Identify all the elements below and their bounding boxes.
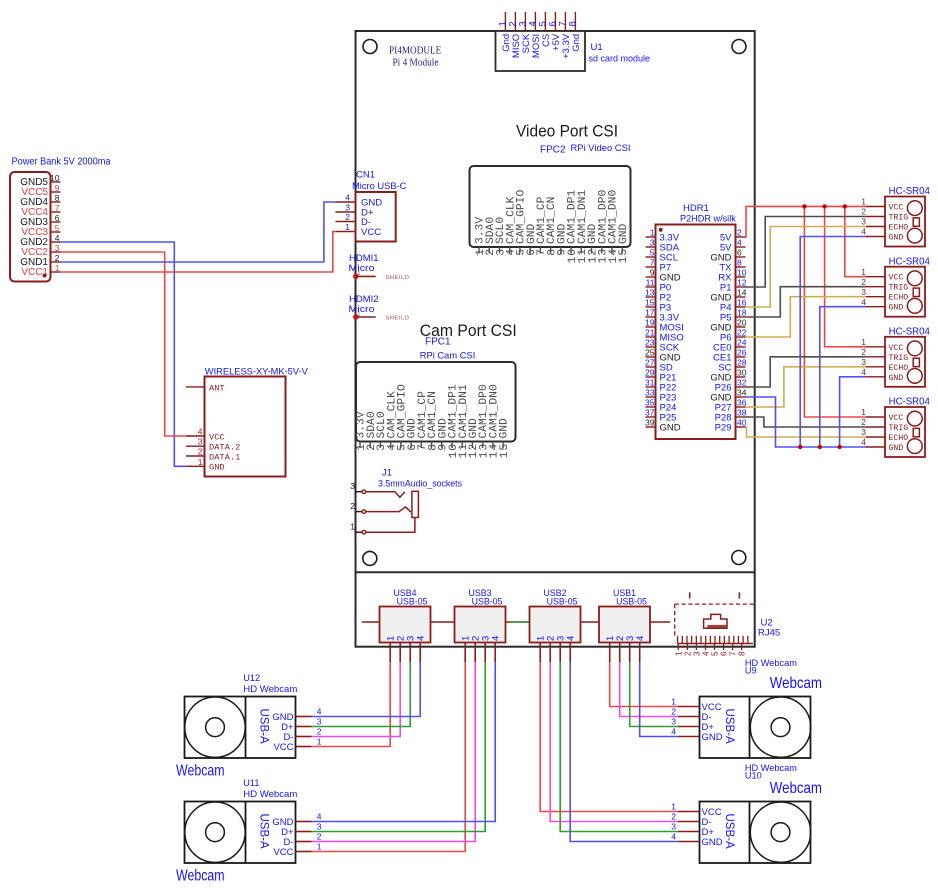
svg-text:36: 36: [737, 398, 747, 408]
svg-text:26: 26: [737, 348, 747, 358]
wire P1 HDR1 pin12 to HC-SR04 #1 TRIG: [746, 217, 867, 288]
svg-text:1: 1: [674, 651, 683, 656]
svg-text:10: 10: [737, 268, 747, 278]
svg-text:GND: GND: [889, 444, 904, 453]
svg-text:21: 21: [645, 328, 655, 338]
svg-text:Micro: Micro: [349, 304, 375, 315]
webcam U10 HD Webcam USB-A: [671, 763, 810, 863]
svg-text:3: 3: [345, 203, 350, 213]
connector FPC1 body: [356, 362, 516, 442]
wire USB1.3 D+ to U9: [630, 662, 678, 727]
svg-text:FPC2: FPC2: [540, 145, 566, 156]
svg-text:1: 1: [861, 407, 866, 417]
svg-text:ANT: ANT: [209, 383, 225, 393]
wire USB2.1 VCC to U10: [540, 662, 678, 812]
wire GND riser to HC-SR04 #1 GND: [800, 237, 866, 448]
svg-text:3: 3: [198, 437, 203, 447]
svg-text:USB-A: USB-A: [723, 814, 735, 849]
svg-text:GND: GND: [702, 837, 723, 848]
svg-text:2: 2: [683, 651, 692, 656]
junction 5V bus C: [843, 204, 847, 208]
svg-text:7: 7: [650, 258, 655, 268]
header HDR1 pin1 marker: [659, 228, 663, 232]
svg-text:CN1: CN1: [356, 170, 375, 181]
svg-text:4: 4: [861, 437, 866, 447]
svg-text:7: 7: [55, 203, 60, 213]
svg-text:ECHO: ECHO: [889, 224, 909, 233]
svg-text:4: 4: [671, 832, 676, 842]
svg-text:37: 37: [645, 408, 655, 418]
wire USB2.2 D- to U10: [550, 662, 678, 822]
connector USB2 USB-05: [530, 588, 581, 662]
sensor HC-SR04 #2: [861, 255, 930, 316]
svg-text:2: 2: [317, 727, 322, 737]
header HDR1 left pins 1-39: [645, 228, 684, 434]
wire USB3.2 D- to U11: [312, 662, 476, 842]
svg-text:10: 10: [50, 173, 60, 183]
svg-text:4: 4: [317, 812, 322, 822]
svg-text:VCC: VCC: [889, 274, 904, 283]
header HDR1 right pins 2-40: [710, 228, 746, 434]
svg-text:3: 3: [671, 822, 676, 832]
svg-text:GND: GND: [209, 463, 225, 473]
svg-text:U11: U11: [243, 778, 259, 788]
svg-text:8: 8: [568, 21, 579, 26]
svg-text:38: 38: [737, 408, 747, 418]
svg-text:HC-SR04: HC-SR04: [889, 326, 930, 338]
wire USB4.3 D+ to U12: [312, 662, 411, 727]
svg-text:3: 3: [861, 217, 866, 227]
svg-text:ECHO: ECHO: [889, 294, 909, 303]
svg-text:3: 3: [317, 822, 322, 832]
wire 5V riser to HC-SR04 #4 VCC: [804, 206, 866, 417]
svg-text:16: 16: [737, 298, 747, 308]
label U1 sd card module: [589, 42, 651, 65]
svg-text:17: 17: [645, 308, 655, 318]
svg-text:4: 4: [671, 727, 676, 737]
wire VCC2 power bank pin3 to wireless VCC: [61, 252, 186, 436]
label FPC2 RPi Video CSI: [540, 143, 631, 156]
svg-text:U1: U1: [591, 42, 603, 53]
svg-text:39: 39: [645, 418, 655, 428]
svg-text:8: 8: [55, 193, 60, 203]
svg-text:U9: U9: [745, 665, 757, 675]
svg-text:3: 3: [350, 481, 355, 491]
connector USB1 USB-05: [599, 588, 650, 662]
connector U2 RJ45: [674, 592, 754, 656]
wire P5 HDR1 pin18 to HC-SR04 #2 TRIG: [746, 287, 867, 317]
svg-text:HD Webcam: HD Webcam: [243, 789, 297, 799]
svg-text:TRIG: TRIG: [889, 214, 909, 223]
junction GND bus B: [818, 445, 822, 449]
wire P6 HDR1 pin22 to HC-SR04 #2 ECHO: [746, 297, 867, 337]
connector USB4 USB-05: [380, 588, 431, 662]
label FPC1 RPi Cam CSI: [420, 337, 476, 362]
svg-text:2: 2: [671, 812, 676, 822]
svg-text:3: 3: [861, 357, 866, 367]
svg-text:HC-SR04: HC-SR04: [889, 185, 930, 197]
wire GND riser to HC-SR04 #2 GND: [820, 307, 866, 447]
svg-text:1: 1: [861, 197, 866, 207]
mounting hole top-right: [732, 40, 746, 54]
webcam U12 HD Webcam USB-A: [185, 673, 322, 758]
wire 5V riser to HC-SR04 #3 VCC: [825, 206, 866, 346]
svg-text:3: 3: [650, 238, 655, 248]
junction GND bus A: [798, 445, 802, 449]
wire USB4.2 D- to U12: [312, 662, 401, 737]
svg-text:11: 11: [646, 278, 655, 288]
wire P26 HDR1 pin32 to HC-SR04 #3 TRIG: [746, 357, 867, 387]
wire P4 HDR1 pin16 to HC-SR04 #1 ECHO: [746, 227, 867, 308]
pin chain USB3-USB2 with green net: [506, 621, 530, 623]
svg-text:35: 35: [645, 398, 655, 408]
svg-text:1: 1: [861, 337, 866, 347]
svg-text:13: 13: [645, 288, 655, 298]
wire GND bus from HDR1 pin34: [746, 397, 867, 447]
svg-text:3: 3: [317, 717, 322, 727]
module U-WIRELESS-XY-MK-5V-V: [186, 367, 309, 477]
wire USB1.2 D- to U9: [620, 662, 678, 717]
wire USB2.3 D+ to U10: [560, 662, 678, 832]
svg-text:25: 25: [645, 348, 655, 358]
svg-text:RPi Cam CSI: RPi Cam CSI: [420, 350, 476, 361]
junction GND bus C: [837, 445, 841, 449]
svg-text:USB-05: USB-05: [472, 597, 503, 607]
svg-text:8: 8: [737, 258, 742, 268]
svg-text:TRIG: TRIG: [889, 424, 909, 433]
svg-text:4: 4: [491, 636, 502, 641]
svg-text:VCC: VCC: [273, 847, 293, 858]
svg-text:2: 2: [345, 212, 350, 222]
svg-text:32: 32: [737, 378, 747, 388]
svg-text:1: 1: [317, 737, 322, 747]
svg-text:4: 4: [198, 427, 203, 437]
svg-text:9: 9: [55, 183, 60, 193]
svg-text:4: 4: [55, 233, 60, 243]
svg-text:3: 3: [692, 651, 701, 656]
svg-text:22: 22: [737, 328, 747, 338]
svg-text:7: 7: [729, 651, 738, 656]
svg-text:GND: GND: [889, 304, 904, 313]
svg-text:4: 4: [566, 636, 577, 641]
mounting hole top-left: [363, 40, 377, 54]
svg-text:Webcam: Webcam: [770, 675, 822, 692]
svg-text:2: 2: [671, 707, 676, 717]
connector U1 sd card module: [496, 12, 586, 71]
svg-text:28: 28: [737, 358, 747, 368]
svg-text:27: 27: [645, 358, 655, 368]
junction 5V bus B: [822, 204, 826, 208]
svg-text:P29: P29: [715, 422, 732, 433]
Pi 4 Module board outline U-PI4MODULE: [356, 31, 755, 647]
svg-text:Webcam: Webcam: [176, 868, 225, 885]
svg-text:GND: GND: [889, 234, 904, 243]
svg-text:4: 4: [737, 238, 742, 248]
svg-text:4: 4: [416, 636, 427, 641]
sensor HC-SR04 #3: [861, 326, 930, 387]
svg-text:2: 2: [317, 832, 322, 842]
connector HDMI1 Micro shield pin: [349, 253, 410, 281]
svg-text:Micro USB-C: Micro USB-C: [352, 181, 407, 192]
svg-text:2: 2: [861, 417, 866, 427]
svg-text:30: 30: [737, 368, 747, 378]
svg-text:33: 33: [645, 388, 655, 398]
svg-text:SHEILD: SHEILD: [386, 275, 410, 281]
svg-text:P2HDR w/silk: P2HDR w/silk: [680, 214, 736, 225]
svg-text:2: 2: [861, 347, 866, 357]
svg-text:HC-SR04: HC-SR04: [889, 396, 930, 408]
label PI4MODULE: [389, 46, 441, 69]
svg-text:23: 23: [645, 338, 655, 348]
svg-text:2: 2: [198, 447, 203, 457]
svg-text:GND: GND: [499, 418, 511, 439]
svg-text:GND: GND: [660, 422, 681, 433]
svg-text:PI4MODULE: PI4MODULE: [389, 46, 441, 57]
svg-text:4: 4: [345, 193, 350, 203]
webcam U11 HD Webcam USB-A: [185, 778, 322, 863]
svg-text:RJ45: RJ45: [758, 628, 780, 639]
wire/pin chain left of USB4: [362, 621, 380, 623]
mounting hole bottom-right: [732, 551, 746, 565]
svg-text:Gnd: Gnd: [571, 34, 582, 52]
svg-text:29: 29: [645, 368, 655, 378]
svg-text:ECHO: ECHO: [889, 434, 909, 443]
svg-text:8: 8: [738, 651, 747, 656]
wire GND2 power bank pin4 to wireless GND: [61, 242, 186, 466]
svg-text:1: 1: [671, 697, 676, 707]
svg-text:5: 5: [55, 223, 60, 233]
junction 5V bus A: [802, 204, 806, 208]
svg-text:1: 1: [55, 263, 60, 273]
svg-text:1: 1: [198, 457, 203, 467]
svg-text:1: 1: [671, 802, 676, 812]
svg-text:6: 6: [720, 651, 729, 656]
svg-text:VCC: VCC: [889, 414, 904, 423]
svg-text:1: 1: [350, 522, 355, 532]
svg-text:31: 31: [645, 378, 655, 388]
svg-text:2: 2: [350, 501, 355, 511]
label U2 RJ45: [758, 617, 780, 638]
svg-text:4: 4: [861, 297, 866, 307]
svg-text:VCC: VCC: [889, 344, 904, 353]
wire USB1.1 VCC to U9: [610, 662, 678, 707]
sensor HC-SR04 #1: [861, 185, 930, 246]
wire 5V bus from HDR1 pin2: [746, 206, 867, 237]
svg-text:U10: U10: [745, 770, 762, 780]
svg-text:VCC: VCC: [361, 227, 381, 238]
svg-text:3: 3: [861, 427, 866, 437]
wire USB4.4 GND to U12: [312, 662, 421, 717]
svg-text:2: 2: [737, 228, 742, 238]
svg-text:19: 19: [645, 318, 655, 328]
svg-text:USB-A: USB-A: [258, 814, 270, 849]
svg-text:1: 1: [345, 222, 350, 232]
webcam U9 HD Webcam USB-A: [671, 658, 810, 758]
connector FPC2 pins 1-15: [475, 190, 630, 264]
svg-text:Power Bank 5V 2000ma: Power Bank 5V 2000ma: [12, 157, 111, 168]
svg-text:sd card module: sd card module: [589, 54, 651, 65]
svg-text:3.5mmAudio_sockets: 3.5mmAudio_sockets: [378, 479, 462, 490]
connector HDMI2 Micro shield pin: [349, 294, 410, 322]
svg-text:40: 40: [737, 418, 747, 428]
svg-text:DATA.1: DATA.1: [209, 452, 240, 462]
wire USB3.3 D+ to U11: [312, 662, 486, 832]
svg-text:3: 3: [861, 287, 866, 297]
svg-text:USB-A: USB-A: [723, 709, 735, 744]
wire P29 HDR1 pin40 to HC-SR04 #4 ECHO: [746, 427, 867, 437]
svg-text:VCC: VCC: [209, 432, 225, 442]
svg-text:6: 6: [55, 213, 60, 223]
wire USB3.4 GND to U11: [312, 662, 496, 822]
svg-text:6: 6: [737, 248, 742, 258]
svg-text:1: 1: [358, 312, 361, 318]
svg-text:USB-05: USB-05: [397, 597, 428, 607]
svg-text:GND: GND: [702, 732, 723, 743]
svg-text:15: 15: [499, 443, 511, 458]
svg-text:1: 1: [317, 842, 322, 852]
wire VCC1 power bank pin1 to CN1 VCC: [61, 232, 336, 273]
svg-text:1: 1: [650, 228, 655, 238]
svg-text:SHEILD: SHEILD: [386, 316, 410, 322]
wire P28 HDR1 pin38 to HC-SR04 #4 TRIG: [746, 417, 867, 427]
wire USB4.1 VCC to U12: [312, 662, 391, 747]
svg-text:9: 9: [650, 268, 655, 278]
pin chain USB2-USB1: [581, 621, 600, 623]
svg-text:RPi Video CSI: RPi Video CSI: [571, 143, 631, 154]
svg-text:15: 15: [645, 298, 655, 308]
svg-text:4: 4: [317, 707, 322, 717]
svg-text:3: 3: [671, 717, 676, 727]
svg-text:J1: J1: [382, 468, 392, 479]
wire GND riser to HC-SR04 #3 GND: [840, 377, 866, 447]
svg-text:VCC: VCC: [889, 204, 904, 213]
svg-text:5: 5: [650, 248, 655, 258]
svg-text:3: 3: [55, 243, 60, 253]
svg-text:4: 4: [701, 651, 710, 656]
svg-text:U12: U12: [243, 673, 260, 683]
svg-text:1: 1: [861, 267, 866, 277]
svg-text:FPC1: FPC1: [425, 337, 451, 348]
wire 5V riser to HC-SR04 #2 VCC: [845, 206, 866, 276]
wire USB3.1 VCC to U11: [312, 662, 466, 852]
connector CN1 Micro USB-C: [336, 170, 407, 242]
svg-text:Webcam: Webcam: [770, 780, 822, 797]
svg-text:5: 5: [711, 651, 720, 656]
svg-text:USB-A: USB-A: [258, 709, 270, 744]
svg-text:Pi 4 Module: Pi 4 Module: [393, 58, 440, 69]
svg-text:USB-05: USB-05: [547, 597, 578, 607]
svg-text:ECHO: ECHO: [889, 364, 909, 373]
connector FPC2 body: [470, 166, 631, 247]
svg-text:Video Port CSI: Video Port CSI: [516, 123, 618, 141]
svg-text:24: 24: [737, 338, 747, 348]
svg-text:HC-SR04: HC-SR04: [889, 255, 930, 267]
svg-text:Webcam: Webcam: [176, 763, 225, 780]
svg-text:4: 4: [635, 636, 646, 641]
connector Power Bank 5V 2000ma: [10, 157, 111, 282]
wire USB2.4 GND to U10: [570, 662, 678, 842]
svg-text:34: 34: [737, 388, 747, 398]
pin chain right of USB1: [650, 621, 670, 623]
svg-text:TRIG: TRIG: [889, 284, 909, 293]
header HDR1 P2HDR w/silk: [656, 203, 737, 439]
svg-text:4: 4: [861, 227, 866, 237]
svg-text:2: 2: [861, 277, 866, 287]
svg-text:DATA.2: DATA.2: [209, 443, 240, 453]
wire USB1.4 GND to U9: [640, 662, 678, 737]
svg-text:HD Webcam: HD Webcam: [243, 684, 297, 694]
svg-text:HDR1: HDR1: [683, 203, 709, 214]
svg-text:Micro: Micro: [349, 263, 375, 274]
svg-text:GND: GND: [618, 223, 630, 244]
svg-text:VCC: VCC: [273, 742, 293, 753]
svg-text:GND: GND: [889, 374, 904, 383]
svg-text:USB-05: USB-05: [616, 597, 647, 607]
mounting hole bottom-left: [363, 551, 377, 565]
pin chain USB4-USB3: [431, 621, 455, 623]
svg-text:12: 12: [737, 278, 747, 288]
svg-text:TRIG: TRIG: [889, 354, 909, 363]
svg-text:18: 18: [737, 308, 747, 318]
connector FPC1 pins 1-15: [356, 384, 511, 458]
svg-text:20: 20: [737, 318, 747, 328]
svg-text:2: 2: [861, 207, 866, 217]
sensor HC-SR04 #4: [861, 396, 930, 457]
connector USB3 USB-05: [455, 588, 506, 662]
svg-text:2: 2: [55, 253, 60, 263]
wire GND1 power bank pin2 to CN1 GND: [61, 202, 336, 262]
svg-text:15: 15: [618, 248, 630, 263]
wire P27 HDR1 pin36 to HC-SR04 #3 ECHO: [746, 367, 867, 407]
svg-text:14: 14: [737, 288, 747, 298]
svg-text:1: 1: [358, 271, 361, 277]
connector J1 3.5mmAudio_sockets: [350, 468, 462, 535]
svg-text:4: 4: [861, 367, 866, 377]
